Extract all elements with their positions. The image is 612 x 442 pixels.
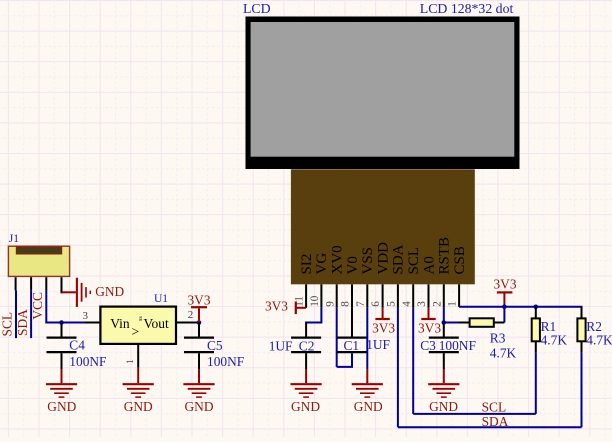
junction R1 top	[534, 305, 539, 310]
C4 top lead	[61, 323, 63, 337]
svg-text:Vout: Vout	[144, 316, 170, 331]
capacitor C3	[429, 336, 459, 338]
wire pin 7 (VSS) to ground	[366, 308, 368, 370]
C3 top lead	[443, 323, 445, 337]
wire J1 ground pin	[61, 291, 63, 293]
svg-text:GND: GND	[184, 399, 213, 414]
svg-text:3V3: 3V3	[372, 320, 395, 335]
LCD screen area	[251, 22, 515, 157]
R1 top lead	[535, 307, 537, 319]
svg-text:9: 9	[324, 301, 336, 307]
svg-text:100NF: 100NF	[207, 354, 244, 369]
junction 3V3 stem	[502, 305, 507, 310]
wire VCC node to U1 pin 3	[62, 322, 86, 324]
svg-text:Vin: Vin	[110, 316, 130, 331]
svg-text:1: 1	[126, 359, 136, 364]
capacitor C1	[337, 336, 367, 338]
C3 bottom lead	[443, 353, 445, 369]
wire pin 2 (RSTB) to junction	[443, 308, 445, 323]
svg-text:3V3: 3V3	[187, 293, 210, 308]
connector J1 body	[8, 246, 69, 276]
ground below C2	[291, 383, 322, 385]
C4 bottom lead	[61, 353, 63, 369]
C5 bottom lead	[198, 353, 200, 369]
resistor R2	[577, 318, 585, 341]
R3 right lead	[494, 322, 505, 324]
svg-text:4: 4	[401, 301, 413, 307]
svg-text:C4: C4	[69, 338, 85, 353]
R1 bottom lead	[535, 341, 537, 353]
pin 7 stub	[366, 284, 368, 308]
junction VCC node	[59, 320, 64, 325]
power port 3V3 at pin 11 (SI2)	[297, 307, 306, 309]
J1 pin stubs	[15, 277, 17, 290]
svg-text:CSB: CSB	[452, 246, 468, 274]
pin 1 stub	[458, 284, 460, 307]
C2 top lead	[305, 322, 307, 337]
svg-text:100NF: 100NF	[69, 354, 106, 369]
svg-text:R3: R3	[490, 330, 506, 345]
svg-text:J1: J1	[9, 233, 19, 245]
svg-text:C2: C2	[299, 338, 315, 353]
capacitor C2	[291, 336, 321, 338]
svg-text:GND: GND	[291, 399, 320, 414]
svg-text:VCC: VCC	[30, 292, 45, 320]
svg-text:6: 6	[370, 301, 382, 307]
LCD connector body	[291, 169, 475, 284]
svg-text:5: 5	[386, 301, 398, 307]
wire SDA bus	[398, 426, 582, 428]
ground below C5	[183, 383, 214, 385]
svg-text:U1: U1	[154, 293, 168, 305]
wire pin 10 (VG) to C2	[306, 308, 321, 323]
svg-text:C5: C5	[207, 338, 223, 353]
junction RSTB node	[442, 320, 447, 325]
wire SDA from J1	[30, 290, 32, 338]
svg-text:3: 3	[416, 301, 428, 307]
svg-text:SDA: SDA	[15, 309, 30, 336]
svg-text:VSS: VSS	[360, 247, 376, 275]
C2 bottom lead	[305, 353, 307, 369]
svg-text:V0: V0	[345, 256, 361, 274]
U1 pin 3 lead	[85, 322, 100, 324]
power port 3V3 at pin 3 (A0)	[428, 308, 430, 318]
svg-text:3V3: 3V3	[418, 320, 441, 335]
C1 top lead from pin 8 (V0)	[351, 308, 353, 337]
ground at J1 (rotated)	[62, 291, 76, 293]
wire SCL from J1	[15, 290, 17, 338]
R3 left lead	[444, 322, 459, 324]
wire pin 1 (CSB) pull-up bus	[459, 307, 581, 310]
svg-text:ss: ss	[138, 316, 144, 321]
svg-text:GND: GND	[429, 399, 458, 414]
resistor R3	[470, 318, 494, 327]
U1 pin 2 lead	[176, 322, 199, 324]
pin 3 stub	[428, 284, 430, 308]
svg-text:4.7K: 4.7K	[541, 333, 568, 348]
R2 bottom lead	[581, 341, 583, 353]
svg-text:GND: GND	[95, 284, 124, 299]
C5 top lead	[198, 323, 200, 337]
svg-text:A0: A0	[421, 256, 437, 274]
svg-text:4.7K: 4.7K	[490, 346, 517, 361]
svg-text:3: 3	[83, 310, 89, 322]
svg-text:GND: GND	[354, 399, 383, 414]
svg-text:100NF: 100NF	[439, 338, 476, 353]
pin 6 stub	[382, 284, 384, 308]
svg-text:7: 7	[355, 301, 367, 307]
svg-text:GND: GND	[124, 399, 153, 414]
J1 keying bar	[16, 247, 61, 254]
capacitor C4	[47, 336, 77, 338]
svg-text:4.7K: 4.7K	[586, 333, 612, 348]
svg-text:XV0: XV0	[330, 245, 346, 274]
voltage regulator U1	[100, 307, 176, 344]
ground below pin 7 (VSS)	[352, 383, 383, 385]
junction U1 output node	[197, 320, 202, 325]
svg-text:SDA: SDA	[482, 414, 509, 429]
wire SCL bus	[413, 413, 536, 415]
pin 2 stub	[443, 284, 445, 308]
svg-text:1: 1	[447, 301, 459, 307]
svg-text:2: 2	[188, 309, 194, 321]
wire pin 5 (SDA) down to SDA bus	[397, 308, 399, 428]
ground below C3	[428, 383, 459, 385]
svg-text:SI2: SI2	[299, 254, 315, 275]
LCD module outline	[246, 17, 520, 170]
R2 top lead	[581, 307, 583, 319]
wire pin 4 (SCL) down to SCL bus	[412, 308, 414, 414]
pin 5 stub	[397, 284, 399, 308]
svg-text:1UF: 1UF	[269, 338, 293, 353]
pin 11 stub	[305, 284, 307, 308]
pin 4 stub	[412, 284, 414, 308]
wire pin 9 (XV0) down	[336, 308, 338, 367]
ground below C4	[46, 383, 77, 385]
svg-text:VG: VG	[314, 253, 330, 275]
power port 3V3 at U1 output	[198, 308, 200, 322]
svg-text:GND: GND	[47, 399, 76, 414]
pin 9 stub	[336, 284, 338, 308]
power port 3V3 at pin 6 (VDD)	[382, 308, 384, 318]
ground below U1 pin 1	[137, 368, 139, 383]
power port 3V3 above pull-up bus	[503, 294, 505, 307]
svg-text:LCD 128*32 dot: LCD 128*32 dot	[420, 1, 514, 16]
wire 3V3 node down to R3	[503, 307, 505, 323]
capacitor C5	[184, 336, 214, 338]
svg-text:1UF: 1UF	[366, 337, 390, 352]
svg-text:2: 2	[431, 301, 443, 307]
svg-text:SCL: SCL	[482, 399, 507, 414]
svg-text:LCD: LCD	[243, 1, 271, 16]
pin 8 stub	[351, 284, 353, 308]
svg-text:8: 8	[340, 301, 352, 307]
svg-text:C3: C3	[420, 338, 436, 353]
pin 10 stub	[320, 284, 322, 308]
wire VCC from J1 to U1	[46, 290, 61, 322]
svg-text:3V3: 3V3	[493, 277, 516, 292]
svg-text:SDA: SDA	[391, 244, 407, 274]
svg-text:VDD: VDD	[375, 242, 391, 275]
svg-text:10: 10	[309, 295, 321, 307]
U1 pin 1 lead (bottom)	[137, 344, 139, 368]
svg-text:SCL: SCL	[406, 247, 422, 275]
svg-text:RSTB: RSTB	[437, 237, 453, 275]
svg-text:>: >	[132, 324, 140, 339]
svg-text:C1: C1	[344, 338, 360, 353]
svg-text:3V3: 3V3	[265, 298, 288, 313]
resistor R1	[532, 318, 540, 341]
wire C1 bottom to pin 9	[337, 353, 352, 367]
svg-text:SCL: SCL	[0, 312, 14, 337]
